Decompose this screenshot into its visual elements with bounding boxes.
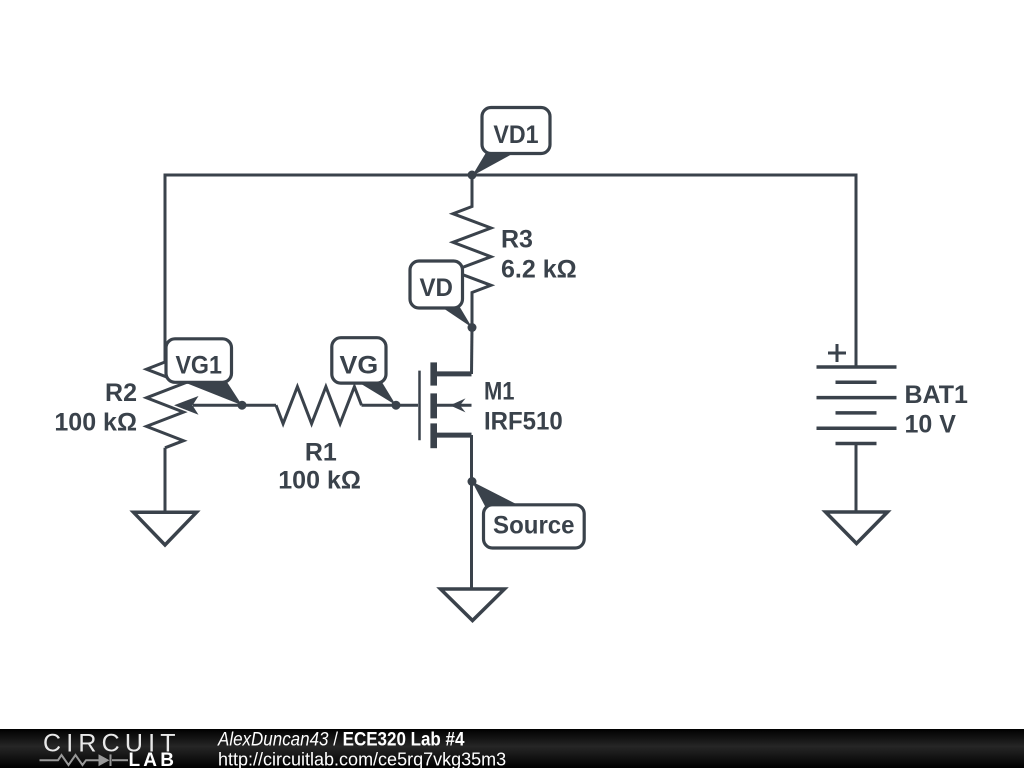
node VD dot (468, 323, 477, 332)
ground left (134, 512, 197, 545)
potentiometer R2 body (147, 362, 184, 448)
svg-text:VG1: VG1 (175, 352, 222, 380)
transistor M1 gate bar (418, 371, 421, 441)
battery BAT1 plates (817, 367, 897, 444)
svg-text:100 kΩ: 100 kΩ (278, 467, 361, 495)
wire gate to R1 (362, 404, 419, 407)
footer line1 author/title (217, 729, 464, 750)
svg-text:M1: M1 (484, 378, 515, 406)
node VD1 balloon (472, 108, 550, 177)
svg-text:R1: R1 (305, 439, 337, 467)
wire MOSFET source down to ground node (434, 433, 472, 438)
node VG balloon (332, 338, 396, 406)
resistor R1 body (276, 387, 362, 424)
battery BAT1 labels (905, 381, 969, 439)
svg-text:100 kΩ: 100 kΩ (54, 409, 137, 437)
node VD1 dot (468, 171, 477, 180)
logo resistor-diode squiggle (40, 754, 129, 766)
node VG dot (392, 401, 401, 410)
wire R2 wiper node to R1 left (242, 404, 276, 407)
resistor R3 body (453, 175, 491, 328)
battery BAT1 plus sign (828, 344, 846, 362)
svg-text:VD: VD (419, 274, 453, 302)
wire R3 bottom to MOSFET drain (470, 328, 474, 375)
resistor R3 labels (501, 226, 577, 284)
transistor M1 channel bars (430, 362, 437, 448)
svg-text:10 V: 10 V (905, 411, 957, 439)
svg-text:VD1: VD1 (493, 121, 538, 149)
svg-text:6.2 kΩ: 6.2 kΩ (501, 256, 577, 284)
transistor M1 body arrow (437, 398, 472, 412)
wire battery bottom to ground (855, 444, 858, 512)
wire pot bottom to ground (164, 448, 167, 512)
svg-text:AlexDuncan43 / ECE320 Lab #4: AlexDuncan43 / ECE320 Lab #4 (217, 729, 464, 750)
svg-text:R2: R2 (105, 379, 137, 407)
svg-text:R3: R3 (501, 226, 533, 254)
node VG1 balloon (166, 339, 242, 405)
ground center (441, 589, 505, 621)
footer bar (0, 729, 1024, 768)
ground right (826, 512, 888, 544)
node Source dot (468, 477, 477, 486)
potentiometer R2 wiper arrow (174, 396, 242, 415)
wire top rail from left corner to battery (165, 175, 856, 367)
resistor R1 labels (278, 439, 361, 495)
svg-text:Source: Source (493, 512, 575, 540)
node VG1 dot (238, 401, 247, 410)
transistor M1 labels (484, 378, 563, 436)
node VD balloon (410, 261, 472, 328)
logo diode triangle (99, 754, 110, 766)
svg-text:IRF510: IRF510 (484, 408, 563, 436)
svg-text:http://circuitlab.com/ce5rq7vk: http://circuitlab.com/ce5rq7vkg35m3 (218, 749, 506, 768)
node Source balloon (472, 482, 584, 549)
svg-text:LAB: LAB (129, 750, 178, 768)
svg-text:VG: VG (340, 352, 379, 380)
svg-text:BAT1: BAT1 (905, 381, 969, 409)
resistor R2 labels (54, 379, 137, 437)
